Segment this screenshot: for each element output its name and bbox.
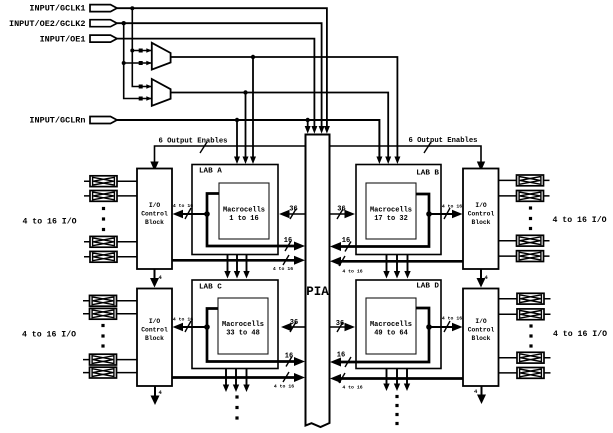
wire LAB B to LAB D vertical 2 [394, 255, 400, 279]
svg-text:LAB B: LAB B [416, 170, 439, 178]
svg-text:36: 36 [290, 319, 298, 327]
wire 4 arrow between left I/O control blocks [150, 269, 163, 288]
wire below LAB C vertical 2 [233, 369, 239, 393]
svg-text:I/O: I/O [149, 318, 161, 325]
svg-text:LAB D: LAB D [416, 283, 439, 291]
wire LAB B to LAB D vertical 3 [404, 255, 410, 279]
wire thick feedback path LAB D macrocells to PIA (16 out) [330, 308, 429, 367]
svg-text:33 to 48: 33 to 48 [226, 330, 260, 338]
wire drop mux1 output into LAB A [250, 57, 256, 164]
svg-text:4 to 16: 4 to 16 [442, 316, 462, 322]
input pin INPUT/GCLK1 [29, 4, 117, 14]
LAB D block [356, 280, 441, 369]
wire 4 to 16 bus bottom-left I/O control block to PIA [172, 372, 305, 390]
node junction LAB C path [204, 324, 210, 330]
svg-text:LAB A: LAB A [199, 167, 222, 175]
slash on LAB A 16 line [285, 241, 291, 251]
wire below LAB D vertical 1 [383, 369, 389, 392]
wire GCLK1 horizontal then down into PIA [117, 8, 330, 133]
wire below LAB D vertical 2 [394, 369, 400, 392]
svg-text:Control: Control [141, 211, 168, 218]
LAB C block [192, 280, 278, 369]
ellipsis right-top I/O cells [529, 206, 532, 230]
junction GCLRn to PIA drop [306, 118, 310, 122]
I/O cell right-top 1 [499, 175, 550, 186]
svg-text:Macrocells: Macrocells [370, 207, 412, 215]
input pin INPUT/GCLRn [29, 116, 117, 126]
junction mux2 output to LAB A drop [243, 90, 247, 94]
pin dot mux1 input2 [139, 61, 143, 65]
wire 4 to 16 bus right I/O control block to PIA (top) [330, 256, 463, 275]
I/O cell right-top 2 [499, 191, 550, 202]
slash on left OE line [200, 142, 207, 153]
svg-text:4 to 16: 4 to 16 [273, 266, 293, 272]
wire vertical A from GCLK2 down to mux2 input2 [124, 23, 151, 98]
I/O control block bottom-right [463, 289, 499, 387]
LAB B block [356, 165, 441, 255]
wire 4 to 16 bus bottom-right I/O control block to PIA [330, 373, 463, 391]
junction vertical B to mux1 input1 stub [130, 49, 134, 53]
wire 36 bus PIA to LAB C [281, 319, 306, 332]
I/O cell left-top 3 [84, 236, 137, 247]
macrocells 1 to 16 box [219, 183, 269, 239]
svg-text:4 to 16: 4 to 16 [173, 203, 193, 209]
input pin INPUT/OE1 [40, 34, 117, 44]
I/O control block bottom-left [137, 289, 172, 387]
wire LAB A to LAB C vertical 3 [243, 255, 249, 279]
pin arrow mux2 input1 [146, 84, 152, 89]
svg-text:4 to 16: 4 to 16 [342, 269, 362, 275]
svg-text:Macrocells: Macrocells [223, 207, 265, 215]
svg-text:Macrocells: Macrocells [222, 321, 264, 329]
svg-text:36: 36 [337, 206, 345, 214]
macrocells 33 to 48 box [218, 298, 268, 354]
svg-text:I/O: I/O [149, 202, 161, 209]
wire stub to mux1 input2 [124, 62, 151, 64]
svg-text:Control: Control [141, 327, 168, 334]
wire stub to mux1 input1 [132, 50, 151, 52]
pin arrow mux1 input2 [146, 61, 152, 66]
wire 6 output enables right (PIA to right I/O control block) [330, 146, 486, 171]
macrocells 17 to 32 box [366, 183, 416, 239]
junction GCLK1 to mux vertical B [130, 6, 134, 10]
svg-text:I/O: I/O [475, 202, 487, 209]
ellipsis left-top I/O cells [102, 207, 105, 231]
svg-text:INPUT/GCLK1: INPUT/GCLK1 [29, 4, 85, 14]
junction GCLK2 to mux vertical A [122, 21, 126, 25]
I/O cell right-top 3 [499, 235, 550, 246]
svg-text:Macrocells: Macrocells [370, 321, 412, 329]
wire below LAB C vertical 1 [223, 369, 229, 393]
svg-text:I/O: I/O [475, 318, 487, 325]
wire below LAB D vertical 3 [404, 369, 410, 392]
slash on LAB C 16 line [286, 357, 292, 367]
I/O cell left-bottom 1 [83, 295, 137, 306]
wire 4 to 16 connector LAB A to left I/O control block [173, 203, 208, 219]
svg-text:Block: Block [145, 219, 164, 226]
I/O cell right-bottom 1 [499, 293, 551, 304]
svg-text:4 to 16 I/O: 4 to 16 I/O [553, 329, 607, 339]
pin arrow mux1 input1 [146, 48, 152, 53]
wire below LAB C vertical 3 [243, 369, 249, 393]
ellipsis below LAB D [395, 395, 398, 425]
wire 4 arrow below bottom-right I/O control block [474, 386, 486, 404]
wire 4 to 16 connector LAB D to bottom-right I/O control block [429, 316, 463, 333]
wire 36 bus PIA to LAB D [330, 320, 356, 332]
svg-text:Block: Block [472, 219, 491, 226]
wire GCLRn horizontal across to LAB B drop [117, 120, 382, 164]
mux M1 (GCLK select) [152, 43, 171, 70]
svg-text:Block: Block [145, 335, 164, 342]
ellipsis below LAB C [235, 395, 238, 419]
wire thick feedback path LAB A macrocells to PIA (16 out) [207, 194, 305, 251]
I/O control block top-left [137, 169, 172, 270]
svg-text:Block: Block [472, 335, 491, 342]
svg-text:INPUT/OE2/GCLK2: INPUT/OE2/GCLK2 [9, 19, 86, 29]
slash on right OE line [424, 142, 431, 153]
svg-text:4 to 16 I/O: 4 to 16 I/O [552, 215, 606, 225]
svg-text:6 Output Enables: 6 Output Enables [408, 137, 477, 145]
wire thick feedback path LAB B macrocells to PIA (16 out) [330, 194, 429, 251]
svg-text:4 to 16: 4 to 16 [274, 384, 294, 390]
I/O cell right-bottom 2 [499, 309, 551, 320]
wire 36 bus PIA to LAB A [279, 206, 306, 220]
ellipsis right-bottom I/O cells [529, 324, 532, 347]
I/O cell left-bottom 4 [83, 367, 137, 378]
pin arrow mux2 input2 [146, 96, 152, 101]
wire LAB A to LAB C vertical 2 [234, 255, 240, 279]
wire mux2 output across to LAB B drop [171, 93, 392, 165]
wire drop mux2 output into LAB A [243, 93, 249, 165]
I/O cell left-bottom 3 [83, 354, 137, 365]
junction GCLRn to LAB A drop [235, 118, 239, 122]
LAB A block [192, 165, 278, 255]
svg-text:36: 36 [336, 320, 344, 328]
wire 6 output enables left (PIA to left I/O control block) [150, 146, 305, 171]
pin dot mux1 input1 [139, 49, 143, 53]
pin dot mux2 input2 [139, 97, 143, 101]
svg-text:Control: Control [468, 327, 495, 334]
wire 36 bus PIA to LAB B [330, 206, 356, 220]
wire mux1 output across to LAB B drop [171, 57, 401, 164]
svg-text:4 to 16: 4 to 16 [342, 385, 362, 391]
svg-text:4 to 16 I/O: 4 to 16 I/O [22, 330, 76, 340]
I/O control block top-right [463, 169, 499, 270]
node junction LAB A path [204, 211, 210, 217]
svg-text:Control: Control [468, 211, 495, 218]
wire LAB A to LAB C vertical 1 [224, 255, 230, 279]
wire GCLK2 horizontal then down into PIA [117, 23, 325, 133]
svg-text:49 to 64: 49 to 64 [374, 330, 408, 338]
PIA block [306, 135, 330, 428]
wire LAB B to LAB D vertical 1 [383, 255, 389, 279]
svg-text:16: 16 [337, 352, 345, 360]
slash on LAB D 16 line [345, 357, 351, 367]
input pin INPUT/OE2/GCLK2 [9, 19, 117, 29]
svg-text:4 to 16 I/O: 4 to 16 I/O [22, 217, 76, 227]
svg-text:INPUT/OE1: INPUT/OE1 [40, 34, 86, 44]
svg-text:4 to 16: 4 to 16 [442, 204, 462, 210]
I/O cell left-bottom 2 [83, 308, 137, 319]
svg-text:4 to 16: 4 to 16 [173, 317, 193, 323]
svg-text:6 Output Enables: 6 Output Enables [158, 137, 227, 145]
slash on LAB B 16 line [345, 242, 351, 252]
wire 4 to 16 connector LAB B to right I/O control block [429, 204, 463, 220]
ellipsis left-bottom I/O cells [101, 324, 104, 348]
wire 4 arrow below bottom-left I/O control block [151, 386, 163, 405]
node junction LAB B path [426, 211, 432, 217]
I/O cell right-bottom 4 [499, 368, 551, 379]
wire 4 to 16 connector LAB C to bottom-left I/O control block [173, 317, 208, 333]
svg-text:LAB C: LAB C [199, 283, 222, 291]
svg-text:36: 36 [289, 206, 297, 214]
I/O cell left-top 2 [84, 191, 137, 202]
mux M2 (OE select) [152, 79, 171, 106]
I/O cell right-bottom 3 [499, 352, 551, 363]
I/O cell left-top 1 [84, 176, 137, 187]
pin dot mux2 input1 [139, 85, 143, 89]
wire drop GCLRn into PIA [305, 120, 311, 134]
wire drop GCLRn into LAB A [234, 120, 240, 164]
macrocells 49 to 64 box [366, 298, 416, 354]
svg-text:PIA: PIA [306, 285, 329, 299]
wire 4 to 16 bus left I/O control block to PIA (top) [172, 255, 305, 272]
svg-text:1 to 16: 1 to 16 [229, 215, 258, 223]
node junction LAB D path [426, 324, 432, 330]
wire 4 arrow between right I/O control blocks [477, 269, 489, 288]
svg-text:INPUT/GCLRn: INPUT/GCLRn [29, 116, 85, 126]
I/O cell right-top 4 [499, 251, 550, 262]
junction vertical A to mux1 input2 stub [122, 61, 126, 65]
wire OE1 horizontal then down into PIA [117, 39, 317, 134]
svg-text:17 to 32: 17 to 32 [374, 215, 408, 223]
wire vertical B from GCLK1 down to mux2 input1 [132, 8, 151, 86]
I/O cell left-top 4 [84, 251, 137, 262]
junction mux1 output to LAB A drop [251, 55, 255, 59]
wire thick feedback path LAB C macrocells to PIA (16 out) [207, 309, 305, 367]
